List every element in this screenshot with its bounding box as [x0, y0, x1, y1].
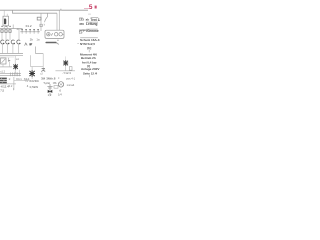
wire B2 stubs: [3, 62, 9, 67]
component box B2: [1, 58, 6, 64]
svg-text:2b: 2b: [30, 38, 34, 42]
wire Y1 feed: [14, 56, 16, 64]
resistor R1 zigzag: [25, 43, 28, 46]
svg-text:ab: ab: [86, 18, 90, 22]
svg-text:123: 123: [79, 18, 84, 22]
wire bus N2 double: [0, 53, 23, 55]
wire N2b faint: [0, 56, 14, 58]
svg-text:1/4: 1/4: [58, 93, 62, 97]
cable segment C1 thick: [46, 42, 56, 44]
wire drop node X5: [56, 13, 58, 30]
wire stem W4: [49, 84, 51, 95]
power dot red P2: [95, 6, 97, 9]
text block T1 dark: [0, 78, 7, 80]
arrow A2: [8, 60, 10, 62]
wire K1 to bus: [4, 26, 7, 29]
bus N5 double with ticks: [0, 72, 21, 74]
svg-text:/4.2: /4.2: [8, 84, 13, 88]
small box right of stem: [54, 86, 58, 89]
wire N6: [55, 70, 75, 72]
svg-text:1,2: 1,2: [48, 93, 52, 97]
terminal box X1: [45, 30, 64, 38]
svg-text:T-plst: T-plst: [43, 81, 50, 85]
wire staircase W1: [36, 47, 44, 54]
legend row R2 upper tick: [86, 28, 97, 31]
svg-text:F1.2: F1.2: [26, 24, 32, 28]
svg-text:Klemme: Klemme: [86, 29, 99, 33]
svg-text:pos.4-1: pos.4-1: [66, 77, 75, 81]
wire N4: [0, 66, 12, 68]
legend row R1a upper ticks: [79, 17, 83, 20]
wire lamp leads lower: [2, 44, 18, 54]
svg-text:x1.2: x1.2: [0, 69, 5, 73]
arrow A1: [29, 43, 32, 45]
wire drop x19: [19, 70, 21, 73]
wire rail L2 tap: [13, 10, 58, 13]
contact box S2: [37, 17, 41, 20]
svg-text:5: 5: [89, 4, 93, 11]
wire H divider: [0, 83, 16, 85]
diode D4 arrow: [17, 28, 20, 30]
wire drop node X6: [58, 10, 60, 30]
switch S1 arc: [45, 13, 48, 22]
svg-text:m2-a4: m2-a4: [67, 83, 75, 87]
wire Y3 down: [65, 66, 67, 71]
wire bus N1: [0, 28, 23, 30]
wire drop to V41: [40, 13, 42, 31]
diode row bus N3: [20, 31, 40, 33]
wire W2: [42, 54, 44, 69]
cluster component near W2: [41, 69, 45, 72]
svg-text::8b: :8b: [53, 81, 57, 85]
wire legend stem: [88, 49, 90, 52]
wire drop x13: [12, 25, 14, 29]
svg-text:-Y12.3: -Y12.3: [62, 71, 71, 75]
wire H divider2: [14, 79, 31, 81]
wire lamp leads upper: [2, 30, 19, 40]
svg-text:Text 12: Text 12: [90, 18, 100, 22]
svg-text:1a: 1a: [36, 38, 40, 42]
motor M2 circle: [58, 82, 63, 87]
legend stem2: [88, 75, 90, 77]
contact marks above F row: [1, 25, 11, 27]
diode row lower stubs: [22, 32, 38, 34]
fuse F2: [5, 30, 7, 33]
wire Y2 tail: [31, 77, 33, 79]
fuse F1: [1, 30, 3, 33]
svg-text:0,5kW: 0,5kW: [30, 85, 39, 89]
terminal plus G1: [47, 33, 50, 36]
relay K1: [3, 16, 9, 26]
lamp H3: [11, 40, 15, 44]
svg-text:X2:4: X2:4: [24, 77, 30, 81]
small component right of Y3: [69, 67, 72, 71]
terminal O2: [59, 33, 62, 36]
valve star Y3: [63, 60, 68, 66]
svg-text:456: 456: [79, 22, 84, 26]
fuse F3: [9, 30, 11, 33]
wire K1 feeds: [4, 10, 7, 16]
wire Y3 feed: [65, 56, 67, 60]
svg-text:Leitung: Leitung: [86, 22, 98, 26]
svg-text:24VDC: 24VDC: [29, 79, 40, 83]
lamp H2: [6, 40, 10, 44]
valve star Y2: [29, 70, 35, 77]
valve star Y1: [13, 64, 18, 70]
junction dot J1: [60, 9, 62, 11]
marks on stem: [47, 86, 52, 88]
wire Y1 down: [14, 70, 16, 74]
svg-text:7,5: 7,5: [0, 88, 4, 92]
terminal mid mark: [52, 33, 53, 35]
wire Y2 feed: [31, 67, 33, 71]
svg-text:--: --: [77, 41, 79, 45]
lamp H1: [1, 40, 5, 44]
legend row R1b upper tick: [86, 21, 98, 24]
valve bowtie V2: [48, 90, 53, 93]
wire pink stub: [84, 7, 89, 9]
diode row pins: [21, 28, 39, 30]
wire rail L1: [0, 9, 88, 11]
svg-text:t:: t:: [58, 76, 60, 80]
svg-text:K4.1: K4.1: [16, 77, 22, 81]
diode D5 on drop: [40, 24, 42, 26]
wire V divider: [13, 77, 15, 90]
svg-text:Seite 12 /4: Seite 12 /4: [83, 71, 98, 75]
lamp H4: [17, 40, 21, 44]
wire W3: [31, 55, 44, 66]
terminal O1: [55, 33, 58, 36]
legend row R3 top tick: [80, 36, 98, 39]
